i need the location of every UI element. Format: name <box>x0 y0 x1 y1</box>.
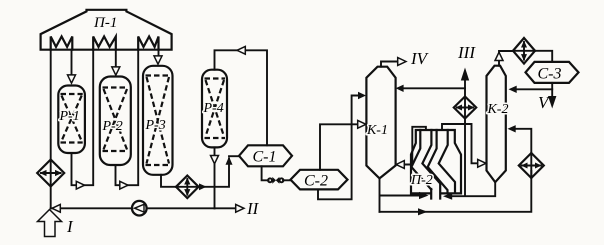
svg-text:V: V <box>538 93 551 112</box>
svg-text:С-3: С-3 <box>538 66 562 83</box>
wire П-2 left coil to К-1 return <box>396 127 426 169</box>
wire П-2 right coil to К-2 feed <box>442 124 486 167</box>
svg-text:С-1: С-1 <box>253 149 277 166</box>
furnace coil 3 <box>138 37 158 50</box>
heat exchanger E5 on reboiler riser <box>519 153 544 178</box>
svg-text:III: III <box>457 43 476 62</box>
wire С-3 reflux to К-2 <box>509 86 553 93</box>
reactor Р-2 <box>100 77 131 166</box>
furnace П-2 body <box>411 130 461 199</box>
pump N1 <box>132 201 147 216</box>
wire Р-3 bottom to exchanger E2 <box>161 175 176 187</box>
svg-text:П-1: П-1 <box>93 15 117 31</box>
svg-text:I: I <box>66 217 74 236</box>
wire E4 to С-3 <box>535 51 552 62</box>
separator С-1 <box>239 145 292 166</box>
furnace coil 1 <box>51 37 73 50</box>
separator С-2 <box>291 170 348 190</box>
wire С-1 bottom to valve <box>262 166 269 180</box>
stream III arrow line <box>461 68 469 196</box>
wire coil 3 to reactor Р-3 <box>154 50 162 64</box>
furnace П-2 coil zigzags <box>411 130 455 193</box>
wire recycle bottom line <box>51 204 215 212</box>
wire reboiler return to К-2 <box>508 125 532 153</box>
wire С-2 bottom to К-1 top feed <box>318 92 366 200</box>
heat exchanger E3 on III line <box>454 97 476 119</box>
separator С-2 label <box>304 173 328 190</box>
column К-1 <box>366 67 395 179</box>
column К-2 label <box>487 102 509 117</box>
wire К-1 bottom line to К-2 reboiler <box>380 171 532 215</box>
furnace П-2 label <box>410 173 433 188</box>
wire Р-2 bottom to coil 3 <box>116 50 139 189</box>
wire С-3 bottom to V <box>548 83 556 109</box>
svg-text:Р-4: Р-4 <box>203 101 224 116</box>
wire coil 2 to reactor Р-2 <box>112 50 120 75</box>
column К-1 label <box>366 123 388 138</box>
wire product II <box>215 204 245 212</box>
reactor Р-3 <box>143 66 173 175</box>
separator С-3 <box>526 62 579 83</box>
wire С-1 top to reactor Р-4 <box>215 46 268 145</box>
stream V label <box>538 93 551 112</box>
heat exchanger E2 <box>176 176 199 199</box>
reactor Р-4 label <box>203 101 224 116</box>
separator С-1 label <box>253 149 277 166</box>
wire К-2 bottom to П-2 <box>443 182 495 200</box>
wire III line reflux to К-1 <box>396 85 465 92</box>
svg-text:К-2: К-2 <box>487 102 509 117</box>
svg-text:К-1: К-1 <box>366 123 388 138</box>
svg-text:Р-3: Р-3 <box>145 118 166 133</box>
reactor Р-4 <box>202 70 227 148</box>
reactor Р-1 <box>58 86 85 154</box>
svg-text:II: II <box>246 199 260 218</box>
wire E2 to С-1 <box>199 156 239 190</box>
wire Р-1 bottom to coil 2 <box>72 50 94 189</box>
furnace П-1 label <box>93 15 117 31</box>
furnace П-1 body <box>41 10 172 50</box>
wire valve to С-2 <box>283 179 291 181</box>
stream I label <box>66 217 74 236</box>
column К-2 <box>487 66 506 183</box>
stream I feed arrow <box>38 210 62 237</box>
separator С-3 label <box>538 66 562 83</box>
reactor Р-3 label <box>145 118 166 133</box>
reactor Р-1 label <box>59 109 80 124</box>
wire coil 1 to reactor Р-1 <box>68 50 76 83</box>
wire riser feed to coil 1 <box>50 50 52 209</box>
throttle valve <box>268 177 284 184</box>
stream III label <box>457 43 476 62</box>
svg-text:Р-2: Р-2 <box>102 119 123 134</box>
svg-text:С-2: С-2 <box>304 173 328 190</box>
heat exchanger E4 <box>513 38 535 64</box>
stream II label <box>246 199 260 218</box>
wire Р-4 bottom to recycle line <box>211 147 219 208</box>
svg-text:IV: IV <box>410 49 430 68</box>
wire К-1 overhead to IV <box>381 58 406 67</box>
svg-text:П-2: П-2 <box>410 173 433 188</box>
svg-text:Р-1: Р-1 <box>59 109 80 124</box>
wire К-2 overhead to exchanger E4 <box>495 51 513 66</box>
furnace coil 2 <box>93 37 116 50</box>
reactor Р-2 label <box>102 119 123 134</box>
wire С-2 top to column К-1 <box>320 120 366 169</box>
stream IV label <box>410 49 430 68</box>
heat exchanger E1 on feed riser <box>37 160 64 187</box>
wire К-1 bottom to П-2 <box>380 178 429 211</box>
